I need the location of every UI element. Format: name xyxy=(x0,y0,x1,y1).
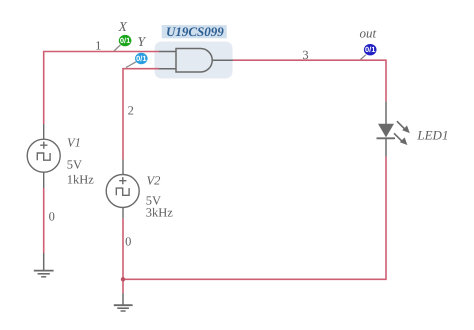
voltage source V2 xyxy=(106,160,139,219)
svg-text:2: 2 xyxy=(128,104,134,118)
wire net 0: V2 bottom to junction xyxy=(122,218,124,279)
pin OUT xyxy=(212,59,233,61)
svg-text:0/1: 0/1 xyxy=(365,45,375,54)
and gate U19CS099 xyxy=(159,49,233,73)
svg-text:V2: V2 xyxy=(147,173,161,187)
V2 top lead xyxy=(122,160,124,175)
junction dot xyxy=(121,277,125,281)
pin B xyxy=(159,68,176,70)
LED1 cathode bar xyxy=(377,137,396,139)
V2 bottom lead xyxy=(122,208,124,219)
pin A xyxy=(159,51,176,53)
V1 plus sign xyxy=(40,142,47,149)
V1 top lead xyxy=(43,124,45,139)
V1 square wave glyph xyxy=(37,153,50,160)
wire net 2: V2 top to gate input B xyxy=(123,69,159,160)
probe X badge xyxy=(119,35,132,46)
wire net 0: V1 bottom to ground lead xyxy=(43,188,45,253)
gate body xyxy=(176,49,212,73)
wire net 0: LED cathode down and across to junction xyxy=(123,157,386,280)
svg-text:X: X xyxy=(118,19,128,34)
svg-text:0/1: 0/1 xyxy=(120,36,130,45)
LED1 triangle xyxy=(378,124,394,138)
svg-text:LED1: LED1 xyxy=(416,128,448,143)
wire net 1: V1 top to gate input A xyxy=(44,52,159,125)
svg-text:1kHz: 1kHz xyxy=(67,172,95,186)
svg-text:0: 0 xyxy=(49,210,55,224)
svg-text:5V: 5V xyxy=(67,157,82,171)
LED1 emission arrow 1 xyxy=(397,121,410,133)
svg-text:0/1: 0/1 xyxy=(136,54,146,63)
svg-text:3: 3 xyxy=(302,48,308,62)
V2 square wave glyph xyxy=(116,188,129,195)
selection highlight of gate U1 xyxy=(155,42,233,79)
label background U19CS099 xyxy=(162,25,227,38)
LED1 bottom lead xyxy=(385,138,387,156)
ground (junction) xyxy=(114,293,133,311)
wire net 0: junction to ground lead xyxy=(122,279,124,293)
V1 circle xyxy=(27,139,60,172)
V2 circle xyxy=(106,175,139,208)
probe Y badge xyxy=(135,53,148,64)
V2 plus sign xyxy=(119,177,126,184)
svg-text:0: 0 xyxy=(125,235,131,249)
wire net 3: gate output to LED anode xyxy=(233,60,386,101)
svg-text:out: out xyxy=(359,26,376,41)
led LED1 xyxy=(377,101,410,156)
svg-text:U19CS099: U19CS099 xyxy=(166,24,224,39)
LED1 top lead xyxy=(385,101,387,124)
probe X pointer xyxy=(114,45,121,51)
LED1 emission arrow 2 xyxy=(394,133,407,145)
probe Y pointer xyxy=(126,62,136,68)
probe out badge xyxy=(364,44,377,55)
ground (V1) xyxy=(34,253,54,277)
svg-text:1: 1 xyxy=(95,38,101,52)
probe out pointer xyxy=(361,55,366,60)
V1 bottom lead xyxy=(43,172,45,188)
svg-text:V1: V1 xyxy=(67,136,81,150)
voltage source V1 xyxy=(27,124,60,188)
svg-text:3kHz: 3kHz xyxy=(146,206,174,220)
